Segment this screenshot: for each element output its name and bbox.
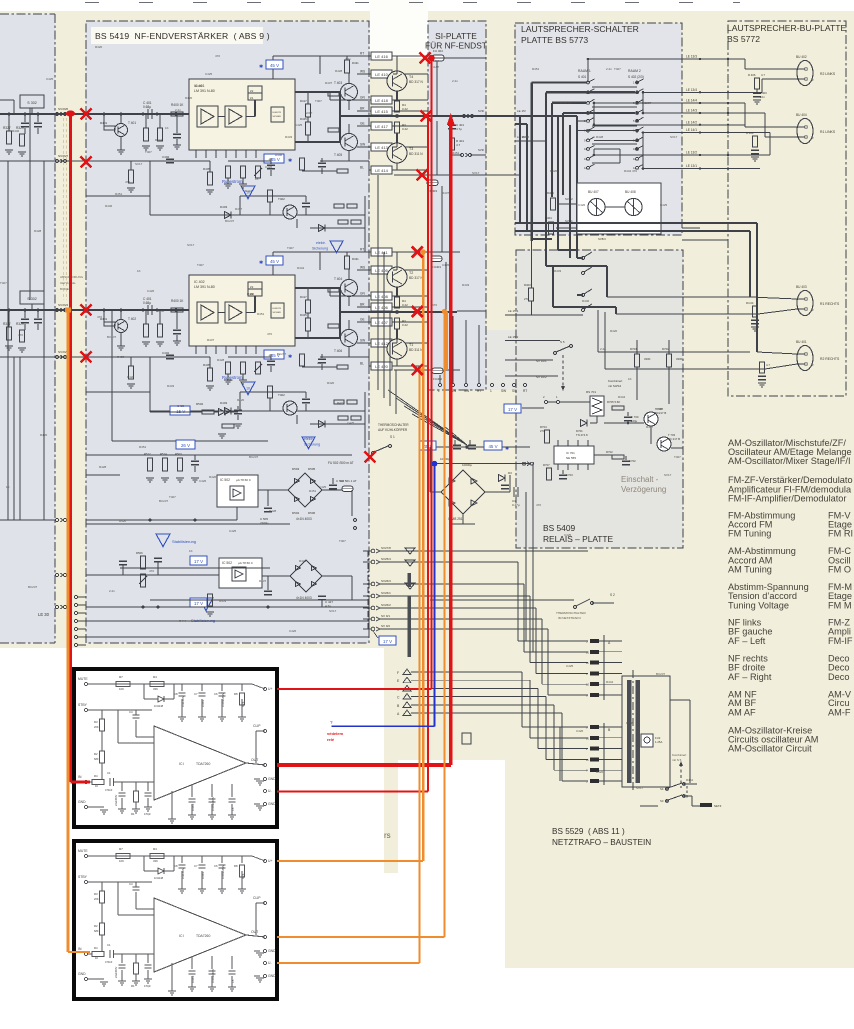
wire <box>531 301 533 315</box>
svg-text:22uF/63V: 22uF/63V <box>114 794 118 806</box>
svg-text:SV 9/2: SV 9/2 <box>381 624 390 628</box>
svg-text:R701: R701 <box>662 347 669 351</box>
ground <box>118 808 126 810</box>
svg-text:NETZTRAFO – BAUSTEIN: NETZTRAFO – BAUSTEIN <box>552 838 651 847</box>
wire <box>478 325 480 383</box>
svg-text:R444: R444 <box>297 266 305 270</box>
ground <box>5 345 13 347</box>
resistor R405 <box>208 172 213 185</box>
svg-text:R1: R1 <box>131 812 135 816</box>
wire gnd right2 <box>254 975 260 977</box>
svg-text:T407: T407 <box>614 67 621 71</box>
svg-text:R444: R444 <box>606 680 614 684</box>
node marker triangle down <box>405 548 415 554</box>
svg-text:SV9/: SV9/ <box>478 109 484 113</box>
wire <box>211 804 213 815</box>
svg-text:T402: T402 <box>278 393 285 397</box>
svg-text:4×1N 4003: 4×1N 4003 <box>296 517 312 521</box>
svg-text:R431: R431 <box>352 61 359 65</box>
svg-text:elektr.: elektr. <box>304 437 314 441</box>
svg-text:C425: C425 <box>319 485 327 489</box>
transistor T402 BC307B <box>283 205 297 219</box>
svg-text:SV25/4: SV25/4 <box>381 557 391 561</box>
svg-text:4.7: 4.7 <box>456 143 461 147</box>
resistor R441 <box>241 166 246 178</box>
svg-text:Kombiniert: Kombiniert <box>672 753 687 757</box>
svg-text:LE 13/4: LE 13/4 <box>686 88 697 92</box>
svg-text:680: 680 <box>94 757 99 761</box>
wire <box>144 870 158 872</box>
zener symbol <box>230 486 244 500</box>
connector pair <box>463 115 466 118</box>
svg-text:4.7K: 4.7K <box>241 701 245 707</box>
wire <box>757 352 797 354</box>
svg-text:R702: R702 <box>606 450 613 454</box>
wire <box>364 196 366 252</box>
wire output bus top <box>295 287 340 289</box>
svg-text:R425: R425 <box>300 313 307 317</box>
wire <box>765 364 797 369</box>
switch contact relay <box>582 272 585 275</box>
wire stub <box>363 628 371 630</box>
svg-text:BU 408: BU 408 <box>625 190 636 194</box>
wire <box>522 726 588 728</box>
svg-text:C5: C5 <box>231 979 235 983</box>
capacitor C703 <box>562 470 564 474</box>
svg-text:R329: R329 <box>16 322 24 326</box>
svg-text:L: L <box>438 389 440 393</box>
resistor R405b <box>753 306 758 317</box>
node 17V <box>379 636 396 645</box>
ground <box>239 379 247 381</box>
wire <box>394 110 428 112</box>
svg-text:10uF/63V: 10uF/63V <box>181 867 185 879</box>
capacitor C501 <box>237 406 239 409</box>
wire <box>452 523 475 525</box>
wire <box>201 871 203 889</box>
wire <box>597 310 599 352</box>
capacitor C1 <box>109 778 111 786</box>
svg-text:GN: GN <box>360 96 365 100</box>
svg-text:R420: R420 <box>596 770 604 774</box>
wire <box>536 672 588 674</box>
svg-text:SV17: SV17 <box>664 473 672 477</box>
ground <box>117 149 125 151</box>
wire <box>181 871 183 889</box>
svg-text:F: F <box>397 671 399 675</box>
svg-text:IN: IN <box>78 775 82 779</box>
svg-text:C426: C426 <box>147 289 155 293</box>
svg-text:R420: R420 <box>185 96 193 100</box>
resistor R404 270 <box>549 222 554 234</box>
svg-text:FM Tuning: FM Tuning <box>728 529 771 539</box>
resistor R417 <box>306 104 311 117</box>
wire output bus bottom <box>295 141 340 143</box>
wire <box>114 953 154 955</box>
connector pin <box>75 612 78 615</box>
svg-text:FU 501 1 AT: FU 501 1 AT <box>340 479 357 483</box>
wire <box>764 113 766 137</box>
wire <box>150 410 365 412</box>
connector pin <box>502 384 505 387</box>
repair cross mark <box>81 157 92 168</box>
switch contact <box>636 102 639 105</box>
svg-text:R420: R420 <box>610 329 618 333</box>
wire <box>319 56 321 74</box>
svg-text:THERMOSCHALTER: THERMOSCHALTER <box>556 611 586 615</box>
wire <box>368 357 370 366</box>
wire thick bus <box>545 91 547 93</box>
ground <box>168 818 176 820</box>
svg-text:T3: T3 <box>409 147 413 151</box>
wire rail BR <box>357 110 394 112</box>
connector pin <box>75 636 78 639</box>
repair cross mark <box>417 170 428 181</box>
overlay blue dot <box>432 461 438 467</box>
diode <box>471 500 477 506</box>
svg-text:védelem: védelem <box>327 731 343 736</box>
capacitor <box>154 557 162 559</box>
net label LE 412 <box>371 339 392 347</box>
wire LE15/1 <box>505 314 583 316</box>
wire <box>557 203 577 205</box>
svg-text:T407: T407 <box>339 539 346 543</box>
net label LE 405 <box>371 266 392 274</box>
capacitor C334 <box>37 114 39 122</box>
wire <box>547 629 549 695</box>
wire <box>221 871 223 889</box>
capacitor C1 <box>109 950 111 958</box>
wire <box>411 687 538 689</box>
svg-text:RT: RT <box>523 389 527 393</box>
wire <box>537 688 539 748</box>
wire <box>348 124 350 134</box>
capacitor <box>234 409 242 411</box>
capacitor <box>448 124 456 126</box>
left amplifier module panel <box>0 14 55 643</box>
wire <box>515 123 527 125</box>
ground <box>188 814 196 816</box>
wire <box>171 791 173 819</box>
wire top rail <box>88 855 252 857</box>
wire <box>606 266 608 297</box>
svg-text:1: 1 <box>490 389 492 393</box>
connector pin <box>465 384 468 387</box>
svg-text:✱: ✱ <box>288 158 292 164</box>
svg-text:TDA7260: TDA7260 <box>196 762 210 766</box>
wire <box>13 100 15 114</box>
connector pair <box>56 160 59 163</box>
ground <box>178 888 186 890</box>
capacitor C510 <box>332 478 334 484</box>
svg-text:R451: R451 <box>452 151 460 155</box>
svg-text:100nF: 100nF <box>191 975 195 983</box>
svg-text:-15 V: -15 V <box>175 409 186 414</box>
ground <box>234 423 242 425</box>
svg-text:BR: BR <box>360 303 365 307</box>
wire <box>750 297 797 299</box>
wire <box>560 748 588 750</box>
wire <box>411 679 530 681</box>
svg-text:BU 404: BU 404 <box>796 113 807 117</box>
capacitor C405 <box>176 310 178 329</box>
svg-text:LE 14/2: LE 14/2 <box>686 120 697 124</box>
capacitor <box>199 864 206 866</box>
connector triangle F <box>403 669 411 675</box>
capacitor <box>751 319 759 321</box>
resistor R704 270 <box>545 430 550 443</box>
ground <box>5 149 13 151</box>
svg-text:IC 701: IC 701 <box>566 451 575 455</box>
svg-text:BU 407: BU 407 <box>588 190 599 194</box>
svg-text:C5: C5 <box>231 807 235 811</box>
capacitor <box>199 692 206 694</box>
wire <box>0 113 55 115</box>
svg-text:R428: R428 <box>656 407 664 411</box>
svg-text:SV26/1: SV26/1 <box>381 591 391 595</box>
svg-text:LE 406: LE 406 <box>375 305 388 310</box>
svg-text:D506: D506 <box>308 511 316 515</box>
wire <box>650 426 652 444</box>
svg-text:17 V: 17 V <box>194 601 203 606</box>
capacitor <box>318 358 326 360</box>
svg-text:470pF: 470pF <box>144 813 151 816</box>
connector triangle D <box>403 685 411 691</box>
switch contact <box>590 768 599 772</box>
capacitor <box>147 109 149 119</box>
capacitor <box>318 162 326 164</box>
connector pin <box>478 384 481 387</box>
wire <box>159 114 161 128</box>
wire <box>587 59 589 82</box>
svg-text:AM Tuning: AM Tuning <box>728 565 772 575</box>
ground <box>127 187 135 189</box>
wire <box>221 856 223 863</box>
ground <box>208 814 216 816</box>
wire <box>240 391 306 393</box>
terminal GND <box>84 977 87 980</box>
net label LE 406 <box>371 303 392 311</box>
diode <box>296 582 301 587</box>
capacitor C702 <box>625 456 627 460</box>
relay RS701 <box>590 396 604 416</box>
wire <box>436 61 438 116</box>
wire <box>599 640 622 642</box>
svg-text:C7: C7 <box>194 692 198 696</box>
wire rail LE 13/2 <box>594 154 745 156</box>
mech link dashed <box>562 355 564 388</box>
wire pin <box>235 150 237 158</box>
wire <box>628 422 644 424</box>
resistor R4 0.22 <box>395 101 400 112</box>
wire <box>592 602 614 604</box>
wire <box>149 357 151 412</box>
wire <box>149 161 151 215</box>
ground <box>228 814 236 816</box>
wire gnd right <box>254 950 260 952</box>
svg-text:10uF/63V: 10uF/63V <box>181 695 185 707</box>
svg-text:✱: ✱ <box>288 354 292 360</box>
wire <box>269 202 271 215</box>
wire <box>13 357 15 520</box>
svg-text:0.22: 0.22 <box>402 127 408 131</box>
wire <box>542 683 588 685</box>
svg-text:R403: R403 <box>524 283 531 287</box>
wire <box>485 491 510 493</box>
wire <box>255 903 257 935</box>
switch contact <box>636 157 639 160</box>
svg-text:470: 470 <box>215 54 220 58</box>
wire thick bus <box>530 83 532 242</box>
terminal CLIP <box>263 729 266 732</box>
svg-text:2.2n: 2.2n <box>175 108 181 112</box>
svg-text:T1: T1 <box>409 343 413 347</box>
wire out <box>246 763 265 765</box>
wire <box>150 454 195 456</box>
svg-text:RAUM 2: RAUM 2 <box>628 69 641 73</box>
svg-text:45 V: 45 V <box>270 63 279 68</box>
wire <box>670 699 690 701</box>
svg-text:4.7μ: 4.7μ <box>456 127 462 131</box>
wire thick <box>553 306 616 308</box>
resistor R506 12K <box>141 556 146 569</box>
resistor R400b <box>158 324 163 337</box>
overlay orange vertical U+ <box>422 252 424 861</box>
resistor <box>100 719 105 731</box>
svg-text:100nF: 100nF <box>201 871 205 879</box>
resistor R400 <box>171 112 183 116</box>
svg-text:2.2n: 2.2n <box>600 347 606 351</box>
resistor R401si <box>450 138 455 150</box>
wire pin <box>235 346 237 354</box>
node marker triangle <box>302 437 315 449</box>
node +45V <box>264 350 284 359</box>
wire <box>130 357 132 366</box>
white lower-left zone <box>0 648 384 1024</box>
capacitor <box>559 474 567 476</box>
switch contact <box>587 91 590 94</box>
resistor R435 <box>338 220 348 224</box>
svg-text:U-: U- <box>268 789 272 793</box>
wire <box>272 56 274 65</box>
svg-text:SV17: SV17 <box>670 135 678 139</box>
capacitor <box>119 964 126 966</box>
wire <box>86 606 369 608</box>
wire <box>380 550 588 552</box>
svg-text:SICHER: SICHER <box>273 312 282 314</box>
svg-text:SV27/8: SV27/8 <box>381 546 391 550</box>
wire <box>640 805 658 807</box>
capacitor <box>219 692 226 694</box>
svg-text:IC 402: IC 402 <box>194 280 205 284</box>
svg-text:1K: 1K <box>95 784 98 788</box>
svg-text:20K: 20K <box>94 725 99 729</box>
svg-text:22uF/63V: 22uF/63V <box>114 966 118 978</box>
resistor <box>150 854 164 859</box>
svg-text:T407: T407 <box>145 150 152 154</box>
svg-text:R446: R446 <box>157 309 165 313</box>
wire <box>88 978 104 980</box>
wire LE15/2 <box>505 340 560 342</box>
terminal U- <box>263 789 266 792</box>
svg-text:Einschalt -: Einschalt - <box>621 475 659 484</box>
wire <box>29 108 31 300</box>
wire <box>541 619 543 684</box>
overlay red arrowhead <box>447 113 455 125</box>
svg-text:GN: GN <box>360 292 365 296</box>
svg-text:LE 14/1: LE 14/1 <box>686 128 697 132</box>
switch contact <box>636 166 639 169</box>
svg-text:ELEKTR: ELEKTR <box>273 112 282 114</box>
svg-text:IN: IN <box>78 947 82 951</box>
wire <box>553 705 555 770</box>
svg-text:SW: SW <box>464 389 469 393</box>
svg-text:BC 217 B: BC 217 B <box>668 437 680 441</box>
resistor R435 <box>338 416 348 420</box>
wire rail LE 13/3 <box>588 58 745 60</box>
svg-text:10: 10 <box>246 387 250 391</box>
svg-text:NE 555: NE 555 <box>566 456 576 460</box>
switch link <box>592 125 637 127</box>
svg-text:R446: R446 <box>582 299 590 303</box>
wire <box>228 356 271 358</box>
svg-text:SICHER: SICHER <box>273 116 282 118</box>
svg-text:C425: C425 <box>566 664 574 668</box>
wire <box>150 411 202 413</box>
wire <box>619 149 621 163</box>
wire <box>599 737 622 739</box>
transformer winding secondary <box>636 680 641 783</box>
svg-text:26 V: 26 V <box>181 443 190 448</box>
resistor R528 <box>144 128 149 141</box>
ground <box>224 379 232 381</box>
terminal GND <box>84 805 87 808</box>
wire fan <box>388 390 467 445</box>
diode <box>296 566 301 571</box>
wire <box>599 694 622 696</box>
svg-text:C7: C7 <box>194 864 198 868</box>
wire <box>395 370 397 414</box>
resistor R441 <box>241 362 246 374</box>
svg-text:R8: R8 <box>234 692 238 696</box>
terminal GND <box>263 949 266 952</box>
svg-text:GND: GND <box>268 802 276 806</box>
svg-text:GND: GND <box>268 777 276 781</box>
svg-text:SV17: SV17 <box>135 162 143 166</box>
svg-text:10n: 10n <box>760 95 765 99</box>
svg-text:C8: C8 <box>174 864 178 868</box>
wire <box>101 882 103 891</box>
capacitor C334 <box>37 310 39 318</box>
net label LE 414 <box>371 166 392 174</box>
wire <box>684 795 692 797</box>
op-amp stage A <box>197 106 218 127</box>
wire <box>561 713 563 781</box>
capacitor <box>189 970 196 972</box>
wire <box>380 618 542 620</box>
wire <box>351 576 353 600</box>
wire <box>593 149 595 155</box>
wire thick <box>577 294 583 296</box>
svg-text:D403: D403 <box>220 401 228 405</box>
left module border <box>0 13 55 15</box>
svg-text:C6: C6 <box>214 864 218 868</box>
wire thick bus <box>515 230 750 232</box>
wire stub <box>363 595 371 597</box>
speaker connector BU 404 <box>797 119 813 144</box>
switch S302 ch2 <box>20 291 44 304</box>
wire <box>348 269 350 280</box>
